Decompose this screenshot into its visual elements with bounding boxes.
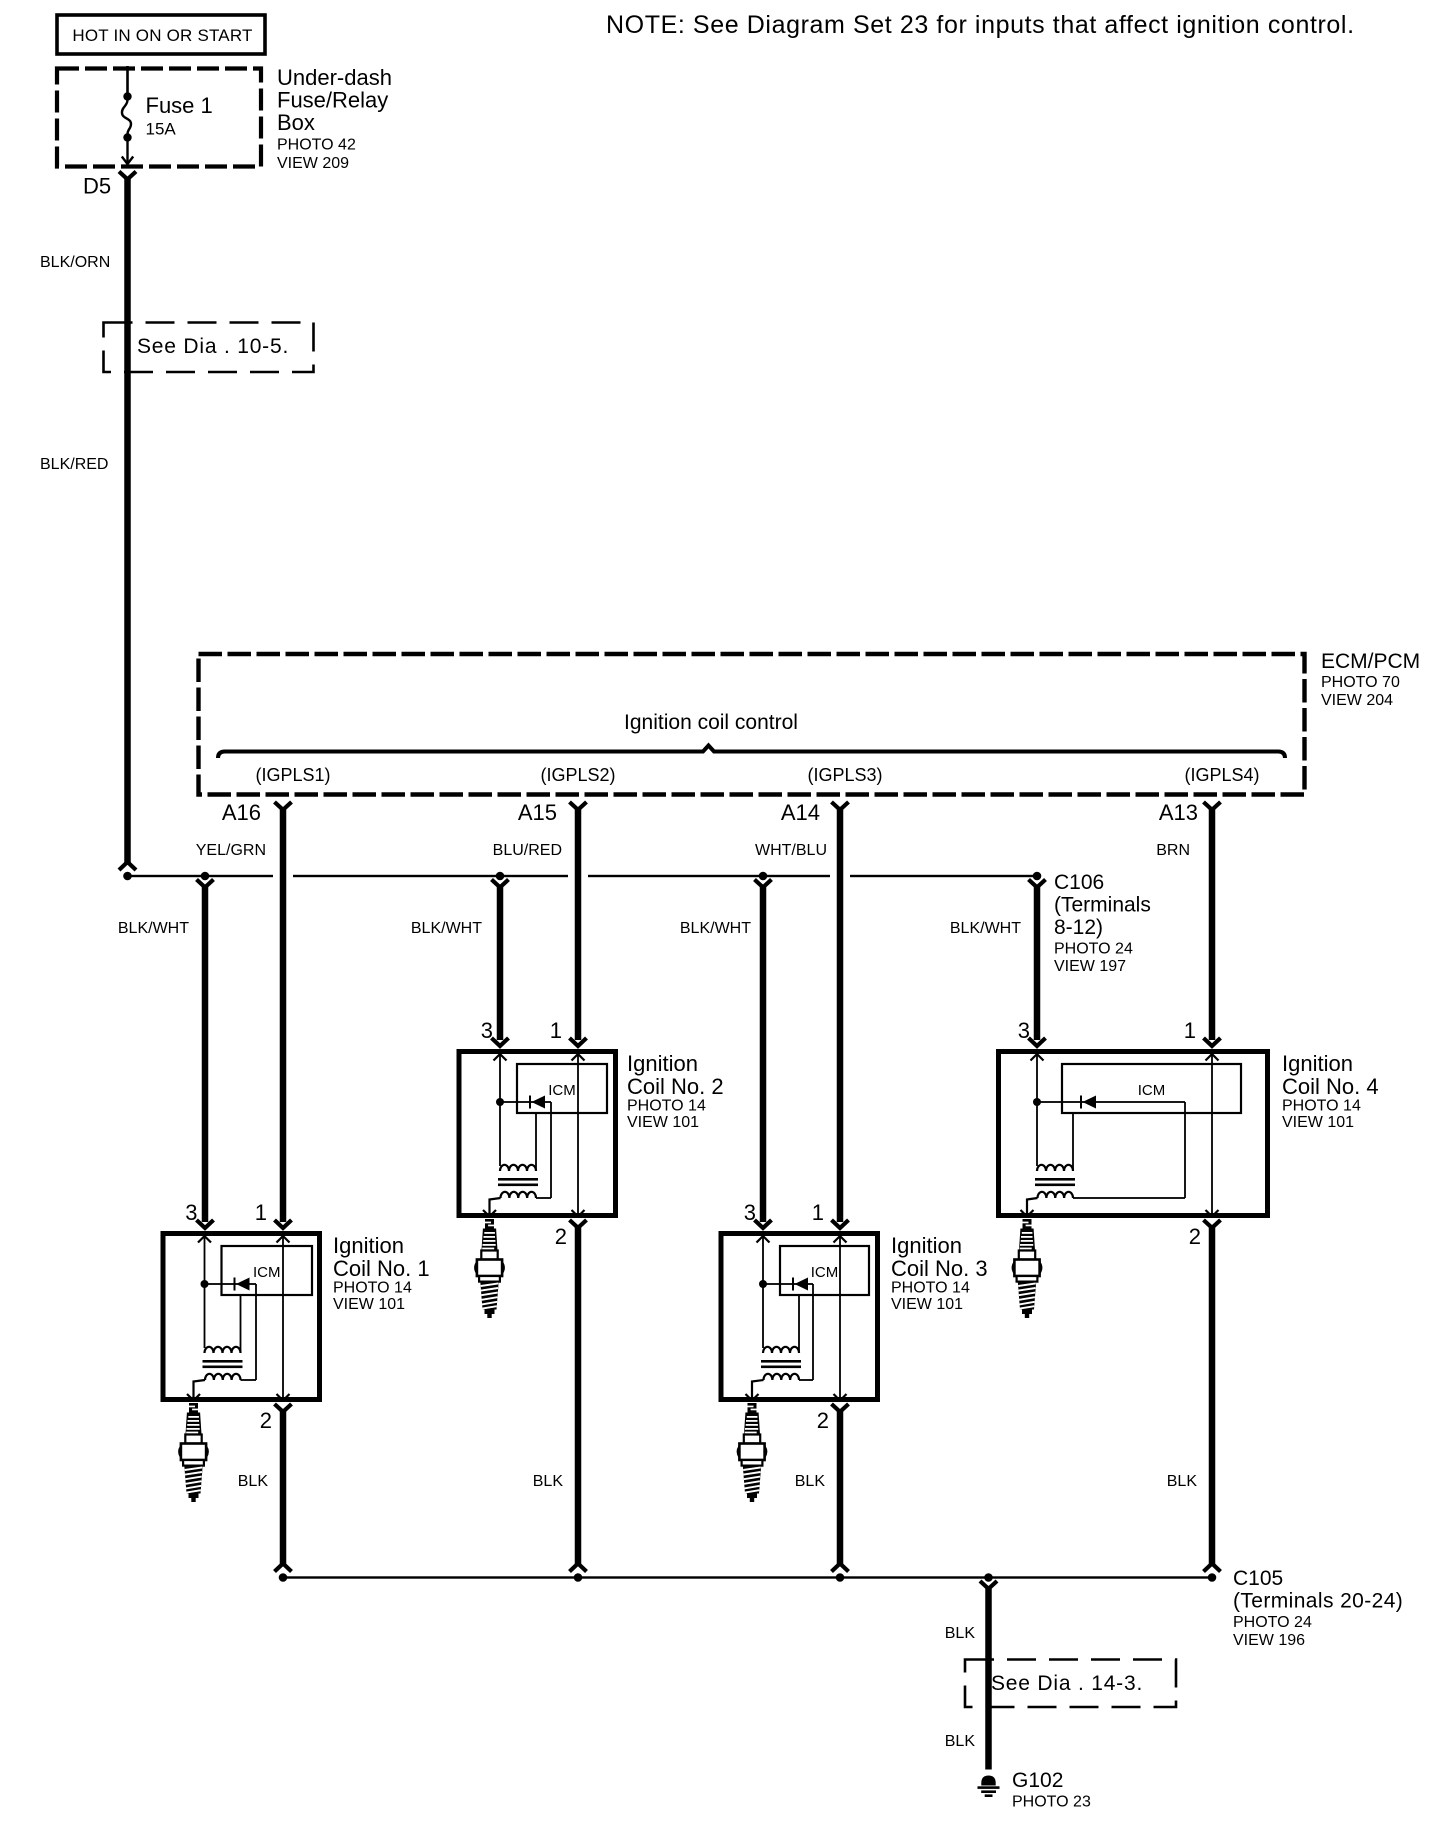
svg-text:PHOTO 14: PHOTO 14: [1282, 1098, 1361, 1115]
svg-text:3: 3: [481, 1018, 493, 1043]
svg-text:VIEW 209: VIEW 209: [277, 155, 349, 172]
svg-text:C105: C105: [1233, 1567, 1283, 1590]
svg-text:Ignition coil control: Ignition coil control: [624, 711, 798, 734]
pin 2 connector (coil 3): [832, 1404, 849, 1412]
ground bus wire (thin): [280, 1576, 1213, 1578]
connector D5: [119, 172, 136, 180]
svg-text:Coil No. 2: Coil No. 2: [627, 1074, 724, 1099]
ICM module box (coil 4): [1062, 1064, 1241, 1113]
svg-text:A13: A13: [1159, 800, 1198, 825]
svg-text:C106: C106: [1054, 871, 1104, 894]
pin 3 internal lead (coil 4): [1036, 1054, 1038, 1166]
pin 3 internal lead (coil 1): [204, 1236, 206, 1348]
connector on BLK/WHT branch: [492, 880, 509, 888]
svg-text:ICM: ICM: [1138, 1082, 1166, 1099]
label Ignition Coil No. 1: [333, 1233, 430, 1313]
svg-text:1: 1: [812, 1200, 824, 1225]
svg-text:PHOTO 14: PHOTO 14: [891, 1280, 970, 1297]
svg-text:Under-dash: Under-dash: [277, 65, 392, 90]
svg-text:WHT/BLU: WHT/BLU: [755, 842, 827, 859]
wire BLK from coil 1 pin 2 to ground bus: [280, 1410, 287, 1564]
svg-text:(IGPLS2): (IGPLS2): [540, 765, 615, 785]
transformer core (coil 3): [761, 1360, 801, 1363]
svg-text:3: 3: [1018, 1018, 1030, 1043]
wire BLU/RED from A15 to coil: [575, 808, 582, 1040]
pin 1 internal lead (coil 3): [839, 1236, 841, 1399]
label C105 (Terminals 20-24) PHOTO 24 VIEW 196: [1233, 1567, 1403, 1649]
wire BLK/WHT: [760, 885, 767, 1222]
wire BLK/WHT: [202, 885, 209, 1222]
internal node (coil 4): [1033, 1098, 1041, 1106]
transformer core (coil 1): [203, 1360, 243, 1363]
svg-text:A14: A14: [781, 800, 820, 825]
svg-text:VIEW 101: VIEW 101: [627, 1114, 699, 1131]
lead to spark plug (coil 1): [194, 1380, 206, 1399]
svg-text:BLK: BLK: [238, 1473, 269, 1490]
junction node on ground bus (x=988.5): [984, 1573, 993, 1582]
wire from ICM to secondary winding (coil 1): [255, 1284, 257, 1380]
svg-text:BLU/RED: BLU/RED: [493, 842, 562, 859]
svg-text:BRN: BRN: [1156, 842, 1190, 859]
ECM/PCM box (dashed): [199, 654, 1305, 795]
svg-text:(IGPLS1): (IGPLS1): [255, 765, 330, 785]
pin A16 connector: [275, 802, 292, 810]
svg-text:(Terminals 20-24): (Terminals 20-24): [1233, 1590, 1403, 1613]
svg-text:Ignition: Ignition: [891, 1233, 962, 1258]
svg-text:ECM/PCM: ECM/PCM: [1321, 650, 1420, 673]
pin 2 connector (coil 1): [275, 1404, 292, 1412]
ICM module box (coil 2): [517, 1064, 607, 1113]
wire from ICM to secondary winding (coil 4): [1184, 1102, 1186, 1198]
junction node on ground bus (x=1212.0): [1208, 1573, 1217, 1582]
transformer core (coil 4): [1035, 1178, 1075, 1181]
svg-text:PHOTO 24: PHOTO 24: [1054, 941, 1133, 958]
svg-text:2: 2: [260, 1408, 272, 1433]
svg-text:VIEW 196: VIEW 196: [1233, 1632, 1305, 1649]
svg-text:1: 1: [550, 1018, 562, 1043]
svg-text:BLK: BLK: [533, 1473, 564, 1490]
wire from ICM to secondary winding (coil 3): [812, 1284, 814, 1380]
reference box See Dia. 10-5: [104, 323, 314, 373]
pin 1 internal lead (coil 1): [282, 1236, 284, 1399]
svg-text:BLK/RED: BLK/RED: [40, 456, 108, 473]
splice junction node on bus (x=205.0): [201, 872, 210, 881]
diode (coil 1): [205, 1283, 257, 1285]
svg-text:PHOTO 70: PHOTO 70: [1321, 674, 1400, 691]
transformer core (coil 2): [498, 1178, 538, 1181]
svg-text:2: 2: [817, 1408, 829, 1433]
svg-text:BLK/WHT: BLK/WHT: [118, 920, 189, 937]
svg-text:BLK: BLK: [1167, 1473, 1198, 1490]
connector on ground drop: [980, 1581, 997, 1589]
svg-text:Ignition: Ignition: [627, 1051, 698, 1076]
ICM module box (coil 3): [780, 1246, 869, 1295]
ICM module box (coil 1): [222, 1246, 313, 1295]
lead to spark plug (coil 3): [752, 1380, 764, 1399]
wire BRN from A13 to coil: [1209, 808, 1216, 1040]
pin 2 connector (coil 2): [570, 1220, 587, 1228]
splice junction node on bus (x=763.0): [759, 872, 768, 881]
svg-text:2: 2: [1189, 1224, 1201, 1249]
primary winding (coil 1): [205, 1347, 241, 1353]
svg-text:Fuse/Relay: Fuse/Relay: [277, 88, 388, 113]
splice junction node on bus (x=500.0): [496, 872, 505, 881]
spark plug (coil 1): [179, 1403, 208, 1502]
pin A13 connector: [1204, 802, 1221, 810]
wire BLK to ground: [985, 1587, 992, 1770]
wire from ICM to secondary winding (coil 2): [550, 1102, 552, 1198]
svg-text:G102: G102: [1012, 1769, 1063, 1792]
diode (coil 3): [763, 1283, 813, 1285]
connector on BLK/WHT branch: [1029, 880, 1046, 888]
secondary winding (coil 1): [205, 1374, 241, 1380]
power source box HOT IN ON OR START: [57, 15, 265, 54]
svg-text:BLK/WHT: BLK/WHT: [680, 920, 751, 937]
svg-text:1: 1: [255, 1200, 267, 1225]
splice junction node on bus (x=1037.0): [1033, 872, 1042, 881]
svg-text:HOT IN ON OR START: HOT IN ON OR START: [72, 26, 252, 45]
connector on BLK/WHT branch: [197, 880, 214, 888]
svg-text:(Terminals: (Terminals: [1054, 894, 1151, 917]
svg-text:NOTE: See Diagram Set 23 for i: NOTE: See Diagram Set 23 for inputs that…: [606, 11, 1355, 39]
svg-text:PHOTO 24: PHOTO 24: [1233, 1614, 1312, 1631]
wire BLK from coil 4 pin 2 to ground bus: [1209, 1226, 1216, 1564]
svg-text:Ignition: Ignition: [333, 1233, 404, 1258]
label ECM/PCM PHOTO 70 VIEW 204: [1321, 650, 1420, 709]
svg-text:3: 3: [185, 1200, 197, 1225]
svg-text:A15: A15: [518, 800, 557, 825]
pin 1 internal lead (coil 4): [1211, 1054, 1213, 1215]
pin 3 internal lead (coil 2): [499, 1054, 501, 1166]
svg-text:Box: Box: [277, 110, 315, 135]
junction node on ground bus (x=283.0): [279, 1573, 288, 1582]
svg-text:VIEW 101: VIEW 101: [1282, 1114, 1354, 1131]
internal node (coil 1): [201, 1280, 209, 1288]
label C106 (Terminals 8-12) PHOTO 24 VIEW 197: [1054, 871, 1151, 975]
svg-text:VIEW 101: VIEW 101: [333, 1296, 405, 1313]
svg-text:Ignition: Ignition: [1282, 1051, 1353, 1076]
svg-text:VIEW 204: VIEW 204: [1321, 692, 1393, 709]
svg-text:Coil No. 3: Coil No. 3: [891, 1256, 988, 1281]
junction node on ground bus (x=840.0): [836, 1573, 845, 1582]
diode (coil 4): [1037, 1101, 1185, 1103]
svg-text:PHOTO 14: PHOTO 14: [333, 1280, 412, 1297]
spark plug (coil 4): [1013, 1219, 1042, 1318]
label Under-dash Fuse/Relay Box: [277, 65, 392, 172]
internal node (coil 3): [759, 1280, 767, 1288]
under-dash fuse/relay box (dashed): [57, 69, 261, 167]
label Ignition Coil No. 3: [891, 1233, 988, 1313]
wire BLK/ORN-BLK/RED from fuse D5 down to splice bus: [124, 177, 131, 864]
pin 1 internal lead (coil 2): [577, 1054, 579, 1215]
secondary winding (coil 4): [1038, 1192, 1074, 1198]
spark plug (coil 2): [475, 1219, 504, 1318]
connector on BLK/WHT branch: [755, 880, 772, 888]
svg-text:ICM: ICM: [253, 1264, 281, 1281]
pin A15 connector: [570, 802, 587, 810]
svg-text:BLK/WHT: BLK/WHT: [411, 920, 482, 937]
secondary winding (coil 3): [764, 1374, 800, 1380]
svg-text:VIEW 101: VIEW 101: [891, 1296, 963, 1313]
primary winding (coil 4): [1037, 1165, 1073, 1171]
svg-text:(IGPLS4): (IGPLS4): [1184, 765, 1259, 785]
svg-text:2: 2: [555, 1224, 567, 1249]
spark plug (coil 3): [738, 1403, 767, 1502]
svg-text:ICM: ICM: [811, 1264, 839, 1281]
ground G102: [978, 1776, 1000, 1798]
svg-text:BLK/ORN: BLK/ORN: [40, 254, 110, 271]
reference box See Dia. 14-3: [965, 1660, 1176, 1708]
junction node on ground bus (x=578.0): [574, 1573, 583, 1582]
wire YEL/GRN from A16 to coil: [280, 808, 287, 1222]
pin A14 connector: [832, 802, 849, 810]
svg-text:(IGPLS3): (IGPLS3): [807, 765, 882, 785]
svg-text:PHOTO 42: PHOTO 42: [277, 137, 356, 154]
wire WHT/BLU from A14 to coil: [837, 808, 844, 1222]
splice bus wire (thin) across BLK/WHT branches: [128, 875, 1038, 877]
wire BLK from coil 2 pin 2 to ground bus: [575, 1226, 582, 1564]
internal node (coil 2): [496, 1098, 504, 1106]
primary winding (coil 3): [763, 1347, 799, 1353]
svg-text:YEL/GRN: YEL/GRN: [196, 842, 266, 859]
svg-text:3: 3: [744, 1200, 756, 1225]
lead to spark plug (coil 2): [490, 1198, 501, 1215]
pin 2 connector (coil 4): [1204, 1220, 1221, 1228]
arrow end of BLK/RED wire at splice: [119, 862, 136, 870]
label Ignition Coil No. 2: [627, 1051, 724, 1131]
svg-text:8-12): 8-12): [1054, 916, 1103, 939]
primary winding (coil 2): [500, 1165, 536, 1171]
svg-text:Fuse 1: Fuse 1: [146, 93, 213, 118]
fuse F1 15A: [122, 66, 133, 164]
secondary winding (coil 2): [501, 1192, 537, 1198]
svg-text:See Dia . 10-5.: See Dia . 10-5.: [137, 335, 289, 358]
svg-text:1: 1: [1184, 1018, 1196, 1043]
ignition coil no. 4 box: [999, 1052, 1268, 1216]
svg-text:VIEW 197: VIEW 197: [1054, 958, 1126, 975]
svg-text:BLK: BLK: [945, 1733, 976, 1750]
pin 3 internal lead (coil 3): [762, 1236, 764, 1348]
svg-text:PHOTO 23: PHOTO 23: [1012, 1794, 1091, 1811]
brace for ignition coil control outputs: [218, 746, 1285, 759]
ignition coil no. 1 box: [163, 1234, 320, 1400]
diode (coil 2): [500, 1101, 551, 1103]
svg-text:See Dia . 14-3.: See Dia . 14-3.: [991, 1672, 1143, 1695]
wire BLK/WHT: [497, 885, 504, 1040]
svg-text:A16: A16: [222, 800, 261, 825]
svg-text:15A: 15A: [146, 120, 177, 139]
label Ignition Coil No. 4: [1282, 1051, 1379, 1131]
svg-text:PHOTO 14: PHOTO 14: [627, 1098, 706, 1115]
svg-text:BLK: BLK: [945, 1625, 976, 1642]
svg-text:ICM: ICM: [548, 1082, 576, 1099]
svg-text:Coil No. 1: Coil No. 1: [333, 1256, 430, 1281]
wire BLK/WHT: [1034, 885, 1041, 1040]
lead to spark plug (coil 4): [1027, 1198, 1038, 1215]
svg-text:BLK/WHT: BLK/WHT: [950, 920, 1021, 937]
svg-text:D5: D5: [83, 174, 111, 199]
ignition coil no. 3 box: [721, 1234, 878, 1400]
svg-text:BLK: BLK: [795, 1473, 826, 1490]
label G102 PHOTO 23: [1012, 1769, 1091, 1811]
svg-text:Coil No. 4: Coil No. 4: [1282, 1074, 1379, 1099]
ignition coil no. 2 box: [459, 1052, 616, 1216]
wire BLK from coil 3 pin 2 to ground bus: [837, 1410, 844, 1564]
